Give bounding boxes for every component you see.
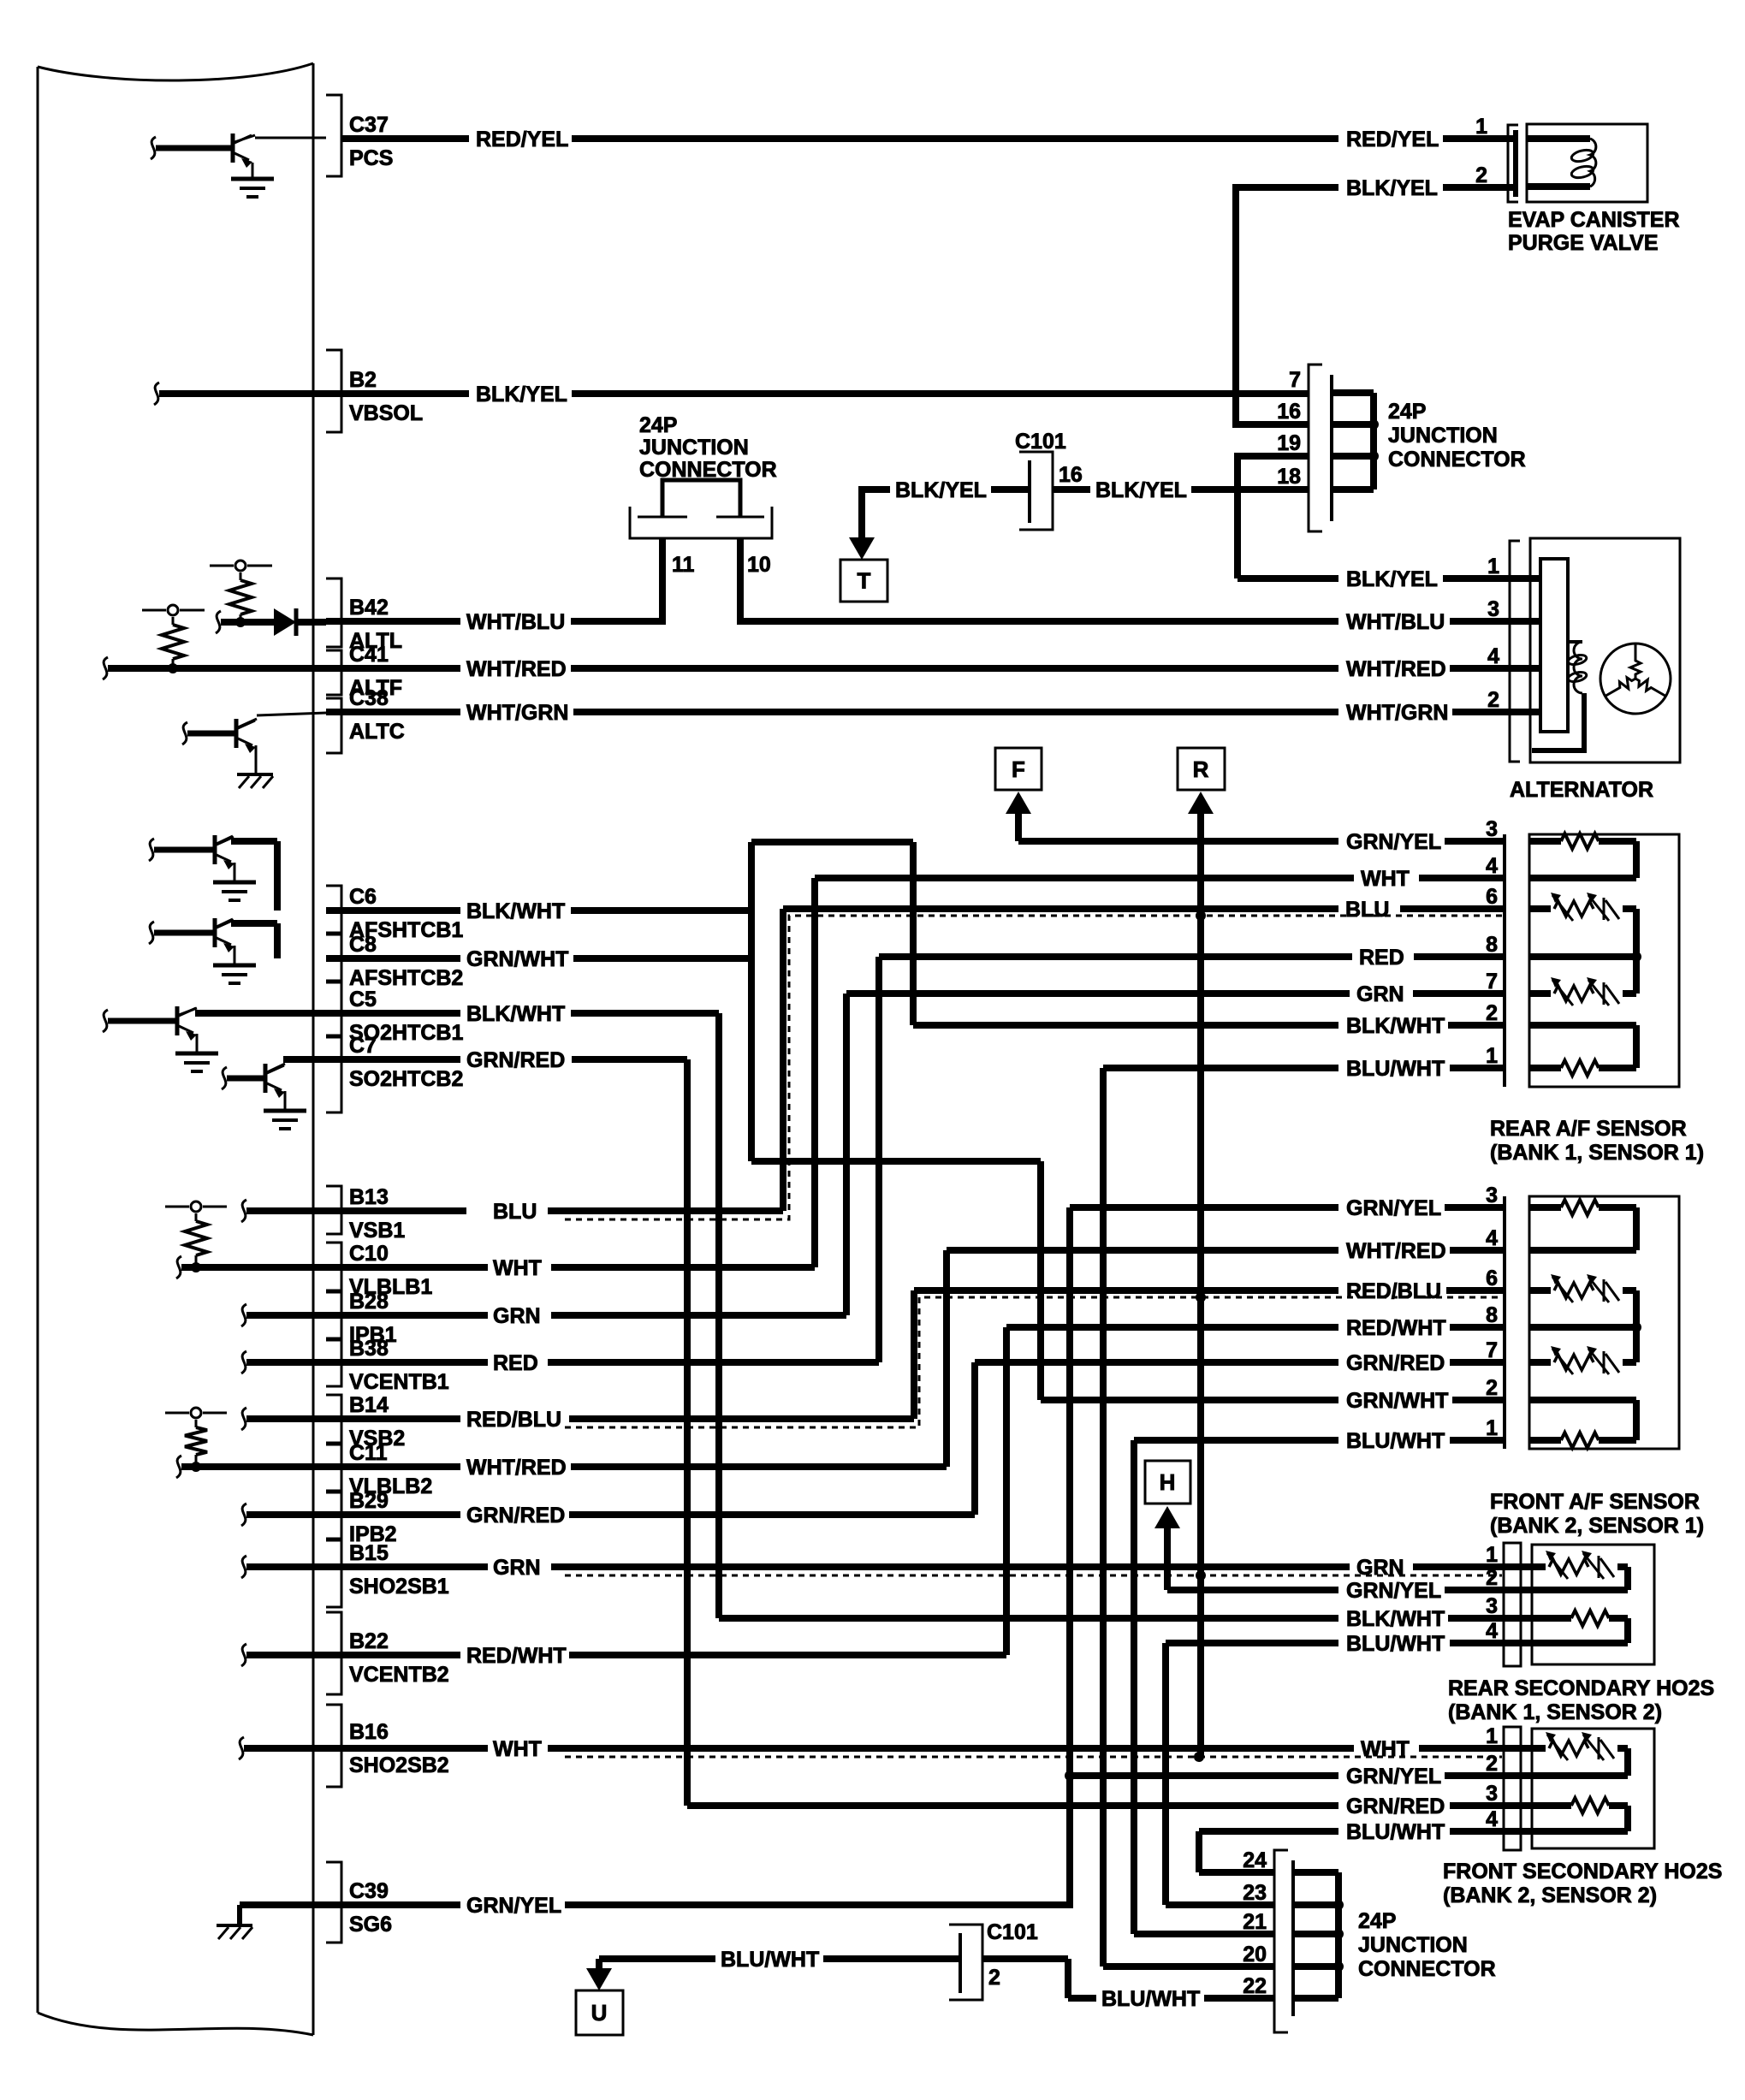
- wire: [252, 163, 254, 177]
- svg-text:JUNCTION: JUNCTION: [1388, 424, 1498, 448]
- svg-text:C39: C39: [349, 1879, 389, 1903]
- svg-text:JUNCTION: JUNCTION: [639, 436, 749, 460]
- transistor Q5 (SO2HTCB1 driver): [175, 1006, 180, 1035]
- connector bracket: [1503, 1196, 1506, 1449]
- wire GRN/YEL (rear A/F sensor pin3): [1018, 838, 1338, 845]
- transistor Q1 (PCS driver): [231, 133, 235, 163]
- svg-text:WHT/RED: WHT/RED: [466, 1456, 567, 1480]
- svg-text:PURGE VALVE: PURGE VALVE: [1508, 231, 1659, 255]
- ground (Q6 emitter): [264, 1109, 306, 1113]
- svg-text:BLK/WHT: BLK/WHT: [466, 1002, 565, 1026]
- wire BLK/WHT (C5 SO2HTCB1 to rear secondary HO2S pin3): [326, 1010, 460, 1017]
- ECM connector B42 / ALTL: [326, 578, 341, 647]
- svg-text:C101: C101: [987, 1920, 1038, 1944]
- wire BLU/WHT (rear secondary HO2S pin4 to 24P pin23): [1166, 1640, 1338, 1646]
- svg-text:VCENTB1: VCENTB1: [349, 1370, 449, 1394]
- wire B38 VCENTB1: [241, 1351, 246, 1373]
- svg-text:C37: C37: [349, 113, 389, 137]
- wire B42 ALTL: [216, 611, 221, 633]
- wire (24P pin19): [1238, 453, 1309, 460]
- svg-text:3: 3: [1486, 1183, 1498, 1207]
- svg-text:VSB1: VSB1: [349, 1219, 405, 1243]
- wire WHT (rear A/F sensor pin4): [815, 875, 1354, 881]
- svg-text:B38: B38: [349, 1337, 389, 1361]
- wire BLK/YEL (EVAP pin2): [1236, 184, 1338, 191]
- off-page connector T: [858, 486, 865, 537]
- svg-text:REAR SECONDARY HO2S: REAR SECONDARY HO2S: [1448, 1676, 1714, 1700]
- svg-text:ALTC: ALTC: [349, 720, 405, 744]
- svg-text:22: 22: [1243, 1974, 1267, 1998]
- heater (pins 3/4): [1529, 1802, 1571, 1809]
- wire C41 ALTF: [103, 657, 108, 679]
- svg-text:2: 2: [1486, 1752, 1498, 1776]
- node: [1333, 1961, 1344, 1972]
- node: [191, 1462, 201, 1472]
- svg-text:SG6: SG6: [349, 1913, 392, 1937]
- sensor element (pins 1/2): [1529, 1745, 1546, 1752]
- wire (shield drain bus to R): [1197, 813, 1204, 1756]
- svg-text:GRN/WHT: GRN/WHT: [1346, 1389, 1448, 1413]
- svg-text:WHT/BLU: WHT/BLU: [466, 610, 565, 634]
- svg-text:C10: C10: [349, 1242, 389, 1266]
- svg-text:WHT: WHT: [493, 1737, 542, 1761]
- svg-text:B29: B29: [349, 1489, 389, 1513]
- svg-text:7: 7: [1486, 970, 1498, 994]
- svg-text:BLU/WHT: BLU/WHT: [721, 1948, 819, 1972]
- wire C10 VLBLB1: [176, 1256, 181, 1278]
- svg-text:GRN: GRN: [1356, 982, 1404, 1006]
- svg-text:C101: C101: [1015, 430, 1066, 454]
- svg-text:RED: RED: [493, 1351, 538, 1375]
- svg-text:BLK/YEL: BLK/YEL: [895, 478, 987, 502]
- svg-text:AFSHTCB2: AFSHTCB2: [349, 966, 463, 990]
- sensor element (pins 6/8/7): [1529, 1287, 1551, 1294]
- pull-down resistor (VSB2/VLBLB2): [165, 1412, 189, 1415]
- node (shield to R bus): [1196, 1292, 1206, 1302]
- svg-text:GRN/YEL: GRN/YEL: [1346, 1579, 1441, 1603]
- wire (BLU shield, dashed): [565, 916, 1504, 1219]
- reference cell (pins 2/1): [1529, 1022, 1636, 1029]
- svg-text:4: 4: [1486, 1226, 1498, 1250]
- node: [1333, 1900, 1344, 1910]
- svg-text:R: R: [1193, 756, 1209, 782]
- svg-text:B28: B28: [349, 1290, 389, 1314]
- svg-text:24P: 24P: [639, 413, 677, 437]
- svg-text:C5: C5: [349, 988, 377, 1011]
- svg-text:11: 11: [672, 553, 695, 577]
- svg-text:7: 7: [1289, 368, 1301, 392]
- svg-text:2: 2: [1486, 1376, 1498, 1400]
- svg-text:18: 18: [1277, 465, 1301, 489]
- wire (24P junction pin10 stub): [737, 538, 744, 625]
- wire (24P junction pin11 stub): [659, 538, 666, 625]
- svg-text:EVAP CANISTER: EVAP CANISTER: [1508, 208, 1680, 232]
- svg-text:RED/BLU: RED/BLU: [466, 1408, 561, 1432]
- off-page connector F: [995, 748, 1042, 790]
- svg-text:FRONT SECONDARY HO2S: FRONT SECONDARY HO2S: [1443, 1860, 1722, 1883]
- wire B13 VSB1: [241, 1200, 246, 1222]
- connector bracket: [1504, 1543, 1521, 1666]
- svg-text:8: 8: [1486, 933, 1498, 957]
- svg-text:2: 2: [1475, 163, 1487, 187]
- svg-text:JUNCTION: JUNCTION: [1358, 1933, 1468, 1957]
- ECM connector B14 / VSB2: [326, 1395, 341, 1443]
- svg-text:B15: B15: [349, 1541, 389, 1565]
- svg-text:GRN: GRN: [493, 1556, 541, 1580]
- wire: [195, 1010, 326, 1017]
- ECM connector C37 / PCS: [326, 95, 341, 176]
- wire RED/YEL (PCS to EVAP pin1): [342, 135, 469, 142]
- wire: [283, 1056, 326, 1063]
- wire B29 IPB2: [241, 1504, 246, 1526]
- wire BLU/WHT (front secondary HO2S pin4 to 24P pin24): [1199, 1828, 1338, 1835]
- node (ALTF pull-up junction): [168, 663, 178, 673]
- ECM connector B22 / VCENTB2: [326, 1612, 341, 1694]
- svg-text:C8: C8: [349, 933, 377, 957]
- ECM/PCM box outline (left, with wavy top/bottom edges): [38, 63, 313, 80]
- wire B2 VBSOL: [154, 383, 159, 405]
- svg-text:2: 2: [1486, 1001, 1498, 1025]
- ECM connector C38 / ALTC: [326, 698, 341, 753]
- svg-text:19: 19: [1277, 431, 1301, 455]
- wire C39 SG6 + ground: [240, 1901, 460, 1908]
- svg-text:4: 4: [1486, 1807, 1498, 1831]
- svg-text:(BANK 1, SENSOR 2): (BANK 1, SENSOR 2): [1448, 1700, 1662, 1724]
- svg-text:(BANK 2, SENSOR 1): (BANK 2, SENSOR 1): [1490, 1514, 1704, 1538]
- svg-text:6: 6: [1486, 885, 1498, 909]
- svg-text:T: T: [858, 568, 871, 594]
- wire WHT/RED (C41 ALTF to alternator pin4): [326, 665, 460, 672]
- svg-text:GRN/RED: GRN/RED: [1346, 1794, 1445, 1818]
- svg-text:GRN/YEL: GRN/YEL: [466, 1894, 561, 1918]
- svg-text:20: 20: [1243, 1943, 1267, 1967]
- svg-text:BLK/WHT: BLK/WHT: [1346, 1607, 1445, 1631]
- svg-text:SHO2SB2: SHO2SB2: [349, 1753, 449, 1777]
- svg-text:VBSOL: VBSOL: [349, 401, 423, 425]
- svg-text:BLU/WHT: BLU/WHT: [1346, 1429, 1445, 1453]
- svg-text:GRN/YEL: GRN/YEL: [1346, 1196, 1441, 1220]
- ECM connector B16 / SHO2SB2: [326, 1705, 341, 1787]
- svg-text:3: 3: [1486, 1782, 1498, 1806]
- svg-text:BLK/YEL: BLK/YEL: [476, 383, 567, 406]
- svg-text:1: 1: [1486, 1044, 1498, 1068]
- svg-text:BLU/WHT: BLU/WHT: [1346, 1632, 1445, 1656]
- svg-text:BLU/WHT: BLU/WHT: [1101, 1987, 1200, 2011]
- ground (Q2 emitter, chassis): [237, 773, 273, 776]
- wire B15 SHO2SB1: [241, 1556, 246, 1578]
- svg-text:B16: B16: [349, 1720, 389, 1744]
- ECM connector C6 / AFSHTCB1: [326, 886, 341, 933]
- svg-text:GRN/RED: GRN/RED: [466, 1048, 565, 1072]
- svg-text:BLU: BLU: [1345, 898, 1389, 922]
- transistor Q4 (AFSHTCB2 driver): [213, 918, 217, 947]
- sensor element (pins 1/2): [1529, 1563, 1546, 1570]
- connector bracket: [1503, 834, 1506, 1087]
- svg-text:3: 3: [1486, 1594, 1498, 1618]
- node: [191, 1262, 201, 1272]
- ECM connector C11 / VLBLB2: [326, 1444, 341, 1491]
- svg-text:B13: B13: [349, 1185, 389, 1209]
- node (shield to R bus): [1196, 1570, 1206, 1581]
- ECM connector B15 / SHO2SB1: [326, 1540, 341, 1607]
- svg-text:21: 21: [1243, 1910, 1267, 1934]
- svg-text:1: 1: [1486, 1724, 1498, 1748]
- ECM connector C10 / VLBLB1: [326, 1243, 341, 1290]
- svg-text:VCENTB2: VCENTB2: [349, 1663, 449, 1687]
- svg-text:GRN/WHT: GRN/WHT: [466, 947, 568, 971]
- wire GRN/RED (C7 SO2HTCB2 to front secondary HO2S pin3): [326, 1056, 460, 1063]
- svg-text:1: 1: [1486, 1416, 1498, 1440]
- ECM connector C8 / AFSHTCB2: [326, 934, 341, 981]
- ECM connector C5 / SO2HTCB1: [326, 982, 341, 1035]
- svg-text:WHT/RED: WHT/RED: [1346, 1239, 1446, 1263]
- svg-text:C11: C11: [349, 1441, 388, 1465]
- wire WHT/BLU (B42 ALTL to alternator pin3 via 24P pins 11/10): [326, 618, 460, 625]
- wire C11 VLBLB2: [176, 1456, 181, 1478]
- svg-text:2: 2: [988, 1966, 1000, 1990]
- svg-text:RED/WHT: RED/WHT: [466, 1644, 567, 1668]
- wire BLU/WHT (front A/F pin1 to 24P pin21): [1134, 1437, 1338, 1444]
- ECM connector C7 / SO2HTCB2: [326, 1037, 341, 1112]
- ground (SG6, chassis): [217, 1924, 252, 1927]
- wire: [231, 838, 277, 845]
- wire GRN/YEL (front secondary HO2S pin2): [1065, 1771, 1075, 1781]
- svg-text:8: 8: [1486, 1303, 1498, 1327]
- svg-text:(BANK 2, SENSOR 2): (BANK 2, SENSOR 2): [1443, 1883, 1657, 1907]
- heater resistor: [1529, 838, 1561, 845]
- svg-text:WHT/BLU: WHT/BLU: [1346, 610, 1445, 634]
- svg-text:GRN/YEL: GRN/YEL: [1346, 1765, 1441, 1789]
- node: [1333, 1929, 1344, 1939]
- heater (pins 3/4): [1529, 1615, 1571, 1622]
- svg-text:F: F: [1012, 756, 1025, 782]
- ground (Q5 emitter): [175, 1052, 218, 1056]
- diode D1 (ALTL): [274, 608, 296, 636]
- svg-text:7: 7: [1486, 1338, 1498, 1362]
- wire B14 VSB2: [241, 1408, 246, 1430]
- wire (24P pin16): [1232, 421, 1309, 428]
- wire BLU (rear A/F sensor pin6): [783, 905, 1338, 912]
- svg-text:16: 16: [1059, 463, 1083, 487]
- svg-text:RED/YEL: RED/YEL: [476, 128, 568, 151]
- svg-text:BLK/WHT: BLK/WHT: [466, 899, 565, 923]
- sensor element (pins 6/8/7): [1529, 905, 1551, 912]
- svg-text:CONNECTOR: CONNECTOR: [1388, 448, 1526, 472]
- wire BLK/YEL (C101 to 24P pin18, off-page T): [862, 486, 890, 493]
- svg-text:RED/YEL: RED/YEL: [1346, 128, 1439, 151]
- svg-text:WHT: WHT: [493, 1256, 542, 1280]
- wire B28 IPB1: [241, 1304, 246, 1326]
- svg-text:RED/BLU: RED/BLU: [1346, 1279, 1441, 1303]
- svg-text:ALTERNATOR: ALTERNATOR: [1510, 778, 1653, 802]
- pull-up resistor (ALTL): [210, 565, 234, 567]
- svg-text:B14: B14: [349, 1393, 389, 1417]
- wire BLU/WHT (C101 pin2 to 24P pin22 and off-page U): [599, 1955, 715, 1962]
- svg-text:B2: B2: [349, 368, 377, 392]
- transistor Q3 (AFSHTCB1 driver): [213, 835, 217, 864]
- ground (Q3 emitter): [213, 881, 256, 885]
- svg-text:C38: C38: [349, 686, 389, 710]
- wire (WHT shield, dashed): [565, 1756, 1502, 1759]
- svg-text:B42: B42: [349, 596, 389, 620]
- svg-text:2: 2: [1486, 1566, 1498, 1590]
- transistor Q6 (SO2HTCB2 driver): [264, 1064, 268, 1093]
- wire GRN (rear A/F sensor pin7): [846, 990, 1350, 997]
- node (ALTL pull-up junction): [235, 617, 246, 627]
- svg-text:4: 4: [1487, 644, 1499, 668]
- svg-text:RED/WHT: RED/WHT: [1346, 1316, 1446, 1340]
- wire WHT/GRN (C38 ALTC to alternator pin2): [326, 709, 460, 715]
- ECM connector C39 / SG6: [326, 1862, 341, 1943]
- ground (Q1 emitter): [231, 177, 274, 181]
- node: [1368, 419, 1379, 430]
- svg-text:C7: C7: [349, 1034, 377, 1058]
- svg-text:WHT/GRN: WHT/GRN: [1346, 701, 1448, 725]
- wire (RED/BLU shield, dashed): [565, 1297, 1504, 1427]
- svg-text:23: 23: [1243, 1881, 1267, 1905]
- node (shield to R bus): [1194, 1752, 1204, 1762]
- connector bracket: [1504, 1727, 1521, 1850]
- wire B16 SHO2SB2: [239, 1737, 244, 1759]
- wire BLK/WHT (C6 AFSHTCB1 to rear A/F pin2): [326, 907, 460, 914]
- 24P junction connector (lower, pins 24/23/21/20/22): [1274, 1850, 1288, 2032]
- svg-text:SO2HTCB2: SO2HTCB2: [349, 1067, 463, 1091]
- stator (alternator, 3-phase windings): [1600, 644, 1671, 714]
- svg-text:3: 3: [1486, 817, 1498, 841]
- wire BLK/YEL (to alternator pin1): [1238, 575, 1338, 582]
- wire: [231, 920, 277, 927]
- svg-text:RED: RED: [1359, 946, 1404, 970]
- wire BLU/WHT (rear A/F pin1 to 24P pin20): [1103, 1065, 1338, 1071]
- svg-text:BLU/WHT: BLU/WHT: [1346, 1820, 1445, 1844]
- ground (Q4 emitter): [213, 964, 256, 968]
- svg-text:C6: C6: [349, 885, 377, 909]
- svg-text:3: 3: [1487, 597, 1499, 621]
- ECM connector B28 / IPB1: [326, 1292, 341, 1338]
- svg-text:BLK/YEL: BLK/YEL: [1095, 478, 1187, 502]
- pull-down resistor (VSB1/VLBLB1): [165, 1206, 189, 1208]
- wire: [1234, 453, 1241, 578]
- off-page connector R: [1178, 748, 1225, 790]
- svg-text:1: 1: [1486, 1543, 1498, 1567]
- svg-text:1: 1: [1487, 555, 1499, 578]
- svg-text:4: 4: [1486, 1619, 1498, 1643]
- node (shield to R bus): [1196, 911, 1206, 921]
- svg-text:C41: C41: [349, 643, 389, 667]
- ECM connector B2 / VBSOL: [326, 350, 341, 432]
- svg-text:BLU/WHT: BLU/WHT: [1346, 1057, 1445, 1081]
- svg-text:SHO2SB1: SHO2SB1: [349, 1575, 449, 1599]
- svg-text:CONNECTOR: CONNECTOR: [1358, 1957, 1496, 1981]
- svg-text:BLK/WHT: BLK/WHT: [1346, 1014, 1445, 1038]
- ECM connector C41 / ALTF: [326, 650, 341, 695]
- wire B22 VCENTB2: [241, 1644, 246, 1666]
- svg-text:16: 16: [1277, 400, 1301, 424]
- svg-text:24P: 24P: [1388, 400, 1426, 424]
- svg-text:REAR A/F SENSOR: REAR A/F SENSOR: [1490, 1117, 1687, 1141]
- wire GRN/WHT (C8 AFSHTCB2 to front A/F pin2): [326, 955, 460, 962]
- off-page connector U: [596, 1959, 602, 1968]
- svg-text:WHT/RED: WHT/RED: [1346, 657, 1446, 681]
- off-page connector H: [1145, 1461, 1190, 1504]
- wire GRN/YEL (rear secondary HO2S pin2, to H): [1167, 1587, 1338, 1593]
- svg-text:PCS: PCS: [349, 146, 393, 170]
- pull-up resistor (ALTF): [142, 609, 166, 612]
- svg-text:4: 4: [1486, 854, 1498, 878]
- svg-text:FRONT A/F SENSOR: FRONT A/F SENSOR: [1490, 1490, 1700, 1514]
- svg-text:B22: B22: [349, 1629, 389, 1653]
- transistor Q2 (ALTC driver): [234, 719, 239, 748]
- wire RED (rear A/F sensor pin8): [879, 953, 1352, 960]
- heater resistor: [1529, 1204, 1561, 1211]
- svg-text:GRN/RED: GRN/RED: [1346, 1351, 1445, 1375]
- svg-text:24P: 24P: [1358, 1909, 1396, 1933]
- svg-text:WHT/GRN: WHT/GRN: [466, 701, 568, 725]
- wire (GRN shield, dashed): [565, 1575, 1502, 1577]
- ECM connector B13 / VSB1: [326, 1186, 341, 1234]
- node: [1368, 451, 1379, 461]
- svg-text:BLK/YEL: BLK/YEL: [1346, 567, 1438, 591]
- svg-text:6: 6: [1486, 1267, 1498, 1290]
- wire: [1232, 184, 1239, 424]
- svg-text:WHT/RED: WHT/RED: [466, 657, 567, 681]
- ECM connector B38 / VCENTB1: [326, 1340, 341, 1386]
- svg-text:U: U: [591, 2000, 608, 2026]
- svg-text:H: H: [1160, 1469, 1176, 1495]
- ECM connector B29 / IPB2: [326, 1492, 341, 1539]
- svg-text:1: 1: [1475, 115, 1487, 139]
- svg-text:BLU: BLU: [493, 1200, 537, 1224]
- svg-text:GRN/RED: GRN/RED: [466, 1504, 565, 1528]
- svg-text:(BANK 1, SENSOR 1): (BANK 1, SENSOR 1): [1490, 1141, 1704, 1165]
- 24P junction connector (upper right, pins 7/16/19/18): [1309, 365, 1322, 531]
- svg-text:WHT: WHT: [1361, 867, 1410, 891]
- reference cell (pins 2/1): [1529, 1397, 1636, 1403]
- svg-text:2: 2: [1487, 688, 1499, 712]
- svg-text:10: 10: [747, 553, 771, 577]
- field coil (alternator rotor): [1568, 640, 1582, 644]
- svg-text:GRN: GRN: [493, 1304, 541, 1328]
- svg-text:GRN/YEL: GRN/YEL: [1346, 830, 1441, 854]
- svg-text:24: 24: [1243, 1848, 1267, 1872]
- svg-text:BLK/YEL: BLK/YEL: [1346, 176, 1438, 200]
- wire BLK/YEL (B2 VBSOL to 24P pin7): [326, 390, 469, 397]
- wire GRN/YEL (front A/F pin3 to SG6/C39 and front sec pin2): [1070, 1204, 1338, 1211]
